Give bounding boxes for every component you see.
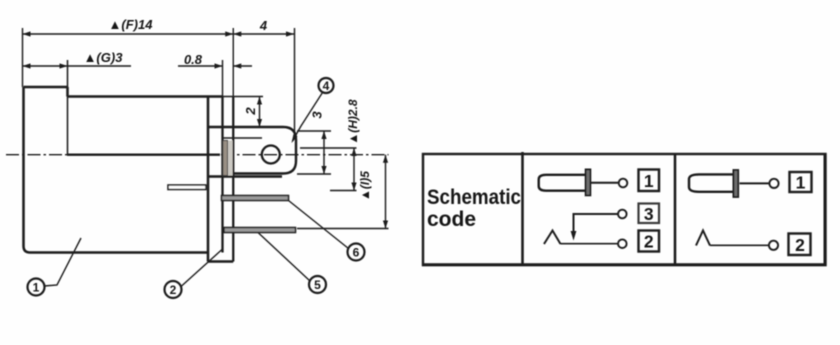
table separator 2 xyxy=(674,154,677,265)
svg-text:▲(G)3: ▲(G)3 xyxy=(84,50,124,65)
svg-text:3: 3 xyxy=(644,204,654,224)
dimension 4 line xyxy=(233,33,294,35)
dimension (G)3 line xyxy=(23,65,132,67)
mounting plate xyxy=(223,97,234,262)
callout 4 xyxy=(293,78,334,141)
terminal 5 xyxy=(224,228,296,233)
svg-text:1: 1 xyxy=(33,281,40,295)
barrel inner sleeve line xyxy=(223,137,263,139)
terminal circle 1 xyxy=(619,179,628,188)
dimension texts xyxy=(84,17,372,201)
barrel top xyxy=(208,126,283,128)
pin box 1 xyxy=(639,170,660,192)
centerline axis xyxy=(6,154,389,156)
extension line left F xyxy=(22,28,24,87)
gasket dark bar xyxy=(223,141,228,176)
pin box 3 xyxy=(639,204,660,224)
svg-text:4: 4 xyxy=(323,79,330,93)
svg-text:6: 6 xyxy=(353,246,360,260)
table thick right edge xyxy=(824,154,827,267)
extension line G right xyxy=(67,60,69,155)
table header text xyxy=(427,186,521,231)
terminal 6 xyxy=(222,196,289,201)
wire to terminal 1 xyxy=(740,182,770,184)
pin box 2 xyxy=(639,231,660,252)
dimension 2 line xyxy=(223,97,264,128)
schematic 2 jack pin symbol xyxy=(689,170,779,197)
dimension I5 lines xyxy=(297,155,389,229)
pin box 2 right xyxy=(789,234,811,256)
svg-text:1: 1 xyxy=(644,171,654,191)
svg-text:0.8: 0.8 xyxy=(184,52,203,67)
dimension 3 lines xyxy=(297,131,331,174)
barrel lug outline xyxy=(231,127,296,174)
callout 6 xyxy=(289,201,365,261)
svg-text:2: 2 xyxy=(795,235,805,255)
svg-text:2: 2 xyxy=(243,107,258,116)
svg-text:5: 5 xyxy=(314,278,321,292)
schematic 2 spring contact xyxy=(696,231,710,246)
dimension arrowheads xyxy=(23,31,389,228)
dimension H2.8 lines xyxy=(300,148,357,191)
wire to terminal 2 xyxy=(561,243,618,245)
body outline xyxy=(24,87,234,262)
wire to terminal 1 xyxy=(591,182,619,184)
extension line right 4 xyxy=(294,28,296,133)
svg-text:▲(I)5: ▲(I)5 xyxy=(358,171,372,201)
svg-text:1: 1 xyxy=(796,173,806,193)
pin box 1 right xyxy=(790,172,812,192)
lug hole xyxy=(262,146,280,164)
terminal circle 2 xyxy=(618,239,627,248)
table outer border xyxy=(423,154,826,265)
svg-text:4: 4 xyxy=(259,18,268,33)
gasket light bar xyxy=(228,141,233,176)
center pin solid xyxy=(67,154,220,156)
terminal circle 2 right xyxy=(769,241,778,250)
extension line right F / plate right xyxy=(232,28,234,97)
internal pin bar xyxy=(168,185,206,190)
dimension (F)14 line xyxy=(23,33,234,35)
table thick bottom edge xyxy=(422,263,827,266)
terminal circle 1 xyxy=(769,179,778,188)
callout 2 xyxy=(165,250,223,299)
terminal circle 3 xyxy=(618,210,627,219)
callout 5 xyxy=(258,233,326,294)
schematic 1 spring contact xyxy=(544,231,561,245)
svg-text:Schematic: Schematic xyxy=(427,186,521,209)
barrel bottom xyxy=(208,175,282,177)
svg-text:▲(H)2.8: ▲(H)2.8 xyxy=(346,99,360,145)
svg-text:code: code xyxy=(427,208,476,231)
svg-text:2: 2 xyxy=(644,232,654,252)
wire to terminal 2 right xyxy=(710,244,769,246)
schematic 1 wire from terminal 3 with arrow xyxy=(574,214,619,231)
svg-text:2: 2 xyxy=(170,283,177,297)
callout 1 xyxy=(28,238,82,296)
extension line 0.8 left / plate left upper xyxy=(222,60,224,97)
table separator 1 xyxy=(521,152,524,265)
schematic 1 jack pin symbol xyxy=(539,169,628,195)
svg-text:▲(F)14: ▲(F)14 xyxy=(109,17,154,32)
svg-text:3: 3 xyxy=(310,111,325,119)
dimension 0.8 leader lines xyxy=(178,65,252,67)
